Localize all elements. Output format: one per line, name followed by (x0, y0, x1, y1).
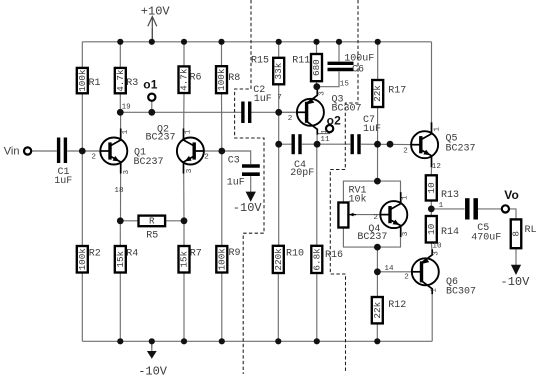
svg-text:R12: R12 (388, 300, 406, 311)
resistor R5 (R) horizontal (139, 215, 166, 241)
svg-text:100k: 100k (216, 68, 227, 91)
svg-text:+10V: +10V (141, 4, 171, 18)
capacitor C2 1uF (243, 102, 250, 124)
svg-text:10: 10 (426, 224, 437, 235)
capacitor C5 470uF (467, 198, 475, 219)
svg-text:1: 1 (439, 202, 444, 210)
wire R4 top lead (119, 221, 121, 246)
svg-text:2: 2 (91, 153, 96, 161)
junction output node 1 (428, 206, 435, 213)
svg-text:1uF: 1uF (363, 124, 381, 135)
svg-text:10k: 10k (349, 194, 367, 206)
svg-text:10: 10 (426, 182, 437, 193)
svg-text:4.7k: 4.7k (179, 68, 190, 91)
svg-text:4.7k: 4.7k (115, 69, 126, 92)
svg-text:1: 1 (122, 129, 130, 134)
resistor R13 10 (426, 175, 459, 201)
wire R11 top lead (316, 42, 318, 54)
wire R13 to R14 junction (430, 201, 432, 216)
svg-text:33k: 33k (273, 62, 284, 79)
svg-text:C3: C3 (228, 156, 240, 167)
svg-text:680: 680 (311, 59, 322, 76)
resistor R1 100k (77, 68, 101, 93)
svg-text:BC237: BC237 (357, 232, 387, 243)
terminal Vo (502, 205, 509, 212)
resistor R2 100k (77, 246, 101, 273)
svg-text:R16: R16 (325, 250, 343, 261)
junction node 14 (374, 268, 381, 275)
wire C7 to Q5 base (361, 143, 411, 145)
wire R17 bottom down to RV1/Q4 top wire (377, 107, 379, 181)
wire RV1 top wire to Q4 collector (343, 181, 400, 202)
svg-text:7: 7 (277, 94, 282, 102)
junction R5 right (181, 217, 188, 224)
wire R1 top lead (81, 42, 83, 68)
junction Q3 collector node 11 (314, 141, 321, 148)
svg-text:1: 1 (430, 288, 438, 293)
resistor R9 100k (216, 246, 240, 273)
svg-text:-10V: -10V (233, 201, 263, 215)
capacitor C7 1uF (352, 134, 359, 154)
svg-text:6.8k: 6.8k (311, 248, 322, 271)
wire node to C4 (279, 143, 292, 145)
svg-text:R13: R13 (441, 190, 459, 201)
junction node 19 at o1 (148, 109, 155, 116)
svg-text:22k: 22k (372, 85, 383, 102)
wire output node to C5 (431, 208, 464, 210)
resistor R4 15k (115, 246, 138, 273)
svg-text:3: 3 (123, 170, 131, 175)
capacitor C3 1uF (242, 166, 260, 174)
svg-text:3: 3 (432, 251, 440, 256)
svg-text:R17: R17 (388, 86, 406, 97)
svg-text:R3: R3 (126, 78, 138, 89)
junction node 15 R11/C6/Q3 (313, 83, 320, 90)
wire R17 top lead (377, 42, 379, 80)
wire R5 right lead (165, 220, 184, 222)
svg-text:BC237: BC237 (134, 157, 164, 168)
transistor Q6 BC307 (412, 249, 439, 294)
wire R15 top lead (278, 42, 280, 58)
svg-text:RL: RL (525, 225, 537, 236)
svg-text:o2: o2 (327, 114, 342, 128)
wire -10V bottom stub (151, 341, 153, 348)
wire R3 top lead (119, 42, 121, 68)
wire R8 bottom to Q2 base node (221, 93, 223, 151)
svg-text:10: 10 (432, 242, 442, 250)
wire C4 to Q3 collector node (302, 143, 317, 145)
svg-text:14: 14 (384, 265, 394, 273)
wire R6 top lead (183, 42, 185, 67)
wire R9 bottom lead (221, 273, 223, 342)
resistor RL 8 (511, 219, 537, 248)
resistor R3 4.7k (115, 68, 138, 93)
wire o1 terminal stub (151, 101, 153, 112)
power -10V symbol at RL (501, 265, 531, 289)
svg-text:2: 2 (204, 153, 209, 161)
junction R5 left (117, 217, 124, 224)
wire Q3 emitter lead (316, 87, 318, 90)
junction C4 left node (275, 141, 282, 148)
svg-text:220k: 220k (273, 248, 284, 271)
dashed stage divider left (235, 0, 264, 374)
wire node 19 bus right of C2 (251, 111, 297, 113)
transistor Q5 BC237 (411, 122, 438, 167)
svg-text:R4: R4 (126, 249, 138, 260)
svg-text:2: 2 (403, 147, 408, 155)
wire C6 bottom L to node 15 (317, 72, 339, 87)
wire R16 bottom lead (316, 273, 318, 341)
wire Q5 emitter to R13 (430, 167, 432, 175)
svg-text:22k: 22k (372, 301, 383, 318)
wire RV1 bottom wire to Q4 emitter (343, 228, 400, 247)
wire Vo to RL (509, 209, 516, 219)
svg-text:20pF: 20pF (290, 168, 314, 179)
svg-text:100k: 100k (77, 69, 88, 92)
svg-text:3: 3 (186, 168, 194, 173)
wire node 19 bus left (120, 111, 241, 113)
wire node19 to Q3 base covered above (279, 111, 297, 113)
svg-text:15: 15 (340, 80, 350, 88)
svg-text:o1: o1 (143, 77, 158, 91)
svg-text:-10V: -10V (138, 364, 168, 378)
resistor R7 15k (179, 246, 202, 273)
resistor R14 10 (426, 216, 459, 243)
svg-text:100k: 100k (77, 248, 88, 271)
svg-text:R8: R8 (228, 73, 240, 84)
svg-text:R5: R5 (146, 231, 158, 242)
svg-text:R2: R2 (89, 249, 101, 260)
junction RV1 bottom node (374, 244, 381, 251)
wire C5 to Vo terminal (477, 208, 502, 210)
wire R7 top lead (183, 221, 185, 246)
wire node 14 to Q6 base (377, 271, 411, 273)
junction Q5 base node (387, 141, 394, 148)
svg-text:3: 3 (402, 231, 410, 236)
svg-text:3: 3 (318, 91, 326, 96)
wire RL bottom to -10V arrow (515, 248, 517, 265)
terminal Vin (24, 147, 31, 154)
wire Q1 collector to node 19 (120, 112, 122, 128)
resistor R12 22k (372, 297, 407, 323)
svg-text:12: 12 (432, 163, 442, 171)
junctions on -10V rail (117, 338, 380, 344)
svg-text:1: 1 (402, 195, 410, 200)
wire Q6 collector to bottom rail (431, 294, 433, 341)
wire bias node down to node 14 and R12 (376, 247, 378, 297)
transistor Q2 BC237 (177, 129, 204, 174)
wire R12 bottom lead (376, 324, 378, 342)
svg-text:-10V: -10V (501, 275, 531, 289)
wire R15 bottom through node 19 to R10 (278, 85, 280, 246)
wire R1 bottom to input node (81, 94, 83, 152)
wire R14 bottom to Q6 emitter (430, 243, 433, 250)
svg-text:1: 1 (185, 129, 193, 134)
potentiometer RV1 10k (338, 186, 366, 228)
svg-text:2: 2 (404, 273, 409, 281)
capacitor C4 20pF (293, 134, 300, 154)
svg-text:R: R (149, 215, 155, 226)
svg-text:8: 8 (511, 231, 522, 237)
svg-text:18: 18 (114, 187, 124, 195)
wire Q2 base to node (197, 150, 222, 152)
svg-text:R6: R6 (190, 72, 202, 83)
wire RV1 wiper to Q4 base (350, 214, 380, 216)
svg-text:1: 1 (434, 127, 442, 132)
svg-text:R7: R7 (190, 249, 202, 260)
wire +10V stub (151, 28, 153, 42)
resistor R8 100k (216, 66, 240, 93)
wire bottom -10V rail (82, 340, 432, 342)
wire R16 top to Q3 collector node (316, 144, 318, 245)
wire C6 top lead (338, 42, 340, 62)
transistor Q4 BC237 (380, 192, 407, 237)
svg-text:C6: C6 (352, 65, 364, 76)
svg-text:1: 1 (321, 129, 329, 134)
svg-text:1uF: 1uF (54, 176, 72, 187)
svg-text:BC237: BC237 (146, 133, 176, 144)
svg-text:R9: R9 (229, 248, 241, 259)
svg-text:1uF: 1uF (227, 177, 245, 188)
junctions on +10V rail (117, 39, 381, 45)
junction input node A (79, 148, 86, 155)
wire R8 top lead (221, 42, 223, 66)
svg-text:R1: R1 (89, 78, 101, 89)
svg-text:11: 11 (320, 136, 330, 144)
wire right supply drop to Q5 collector (431, 42, 433, 123)
capacitor C6 100uF (328, 63, 354, 69)
dashed stage divider right (330, 0, 358, 372)
wire input node down to R2 (81, 151, 83, 246)
svg-text:R14: R14 (441, 227, 459, 238)
resistor R10 220k (273, 246, 304, 273)
svg-text:2: 2 (373, 214, 378, 222)
svg-text:15k: 15k (179, 250, 190, 267)
wire R4 bottom lead (119, 273, 121, 342)
wire R6 bottom to Q2 collector (183, 93, 185, 128)
svg-text:2: 2 (288, 115, 293, 123)
wire Q2 base node to C3 (222, 151, 251, 164)
capacitor C1 1uF (59, 138, 66, 164)
junction R17 bottom node (374, 141, 381, 148)
power +10V symbol (141, 4, 171, 41)
transistor Q1 BC237 (100, 129, 127, 174)
wire R3 bottom to node 19 (119, 94, 121, 113)
junction node 19 at R15 (275, 109, 282, 116)
resistor R15 33k (251, 55, 284, 84)
svg-text:R11: R11 (292, 55, 310, 66)
power -10V symbol bottom rail (138, 341, 168, 378)
wire Vin to C1 (31, 150, 57, 152)
svg-text:Vo: Vo (504, 188, 519, 202)
wire R2 bottom lead (81, 273, 83, 342)
svg-text:15k: 15k (115, 250, 126, 267)
resistor R16 6.8k (311, 246, 343, 273)
wire R7 bottom lead (183, 273, 185, 342)
wire o2 stub (317, 132, 330, 133)
resistor R11 680 (292, 54, 322, 81)
terminal o1 (148, 94, 155, 101)
svg-text:19: 19 (122, 104, 132, 112)
resistor R6 4.7k (179, 66, 202, 93)
svg-text:R10: R10 (286, 249, 304, 260)
wire C1 to Q1 base (67, 150, 100, 152)
svg-text:R15: R15 (251, 55, 269, 66)
transistor Q3 BC307 (297, 90, 324, 135)
wire R11 bottom to node 15 (316, 81, 318, 86)
terminal o2 (326, 125, 333, 132)
wire Q2 base node down to R9 (221, 151, 223, 246)
svg-text:470uF: 470uF (471, 232, 501, 243)
svg-text:Vin: Vin (4, 146, 20, 158)
svg-text:100uF: 100uF (344, 53, 374, 64)
power -10V symbol at C3 (233, 192, 263, 215)
wire C3 to -10V arrow (250, 176, 252, 192)
wire Q3 collector lead (316, 135, 318, 144)
junction RV1 top node (374, 178, 381, 185)
wire Q3 collector node to C7 (317, 143, 350, 145)
svg-text:BC307: BC307 (446, 287, 476, 298)
junction node 19 at R3/Q1 (117, 109, 124, 116)
wire R5 left lead (120, 220, 138, 222)
wire Q1 emitter to R5 rail (120, 173, 122, 220)
resistor R17 22k (372, 80, 406, 107)
wire Q2 emitter to R5 rail (183, 173, 185, 220)
svg-text:1uF: 1uF (254, 94, 272, 105)
junction Q2 base node (218, 148, 225, 155)
wire R10 bottom lead (277, 273, 279, 341)
svg-text:100k: 100k (216, 248, 227, 271)
wire top +10V rail (82, 41, 431, 43)
svg-text:BC237: BC237 (446, 143, 476, 154)
